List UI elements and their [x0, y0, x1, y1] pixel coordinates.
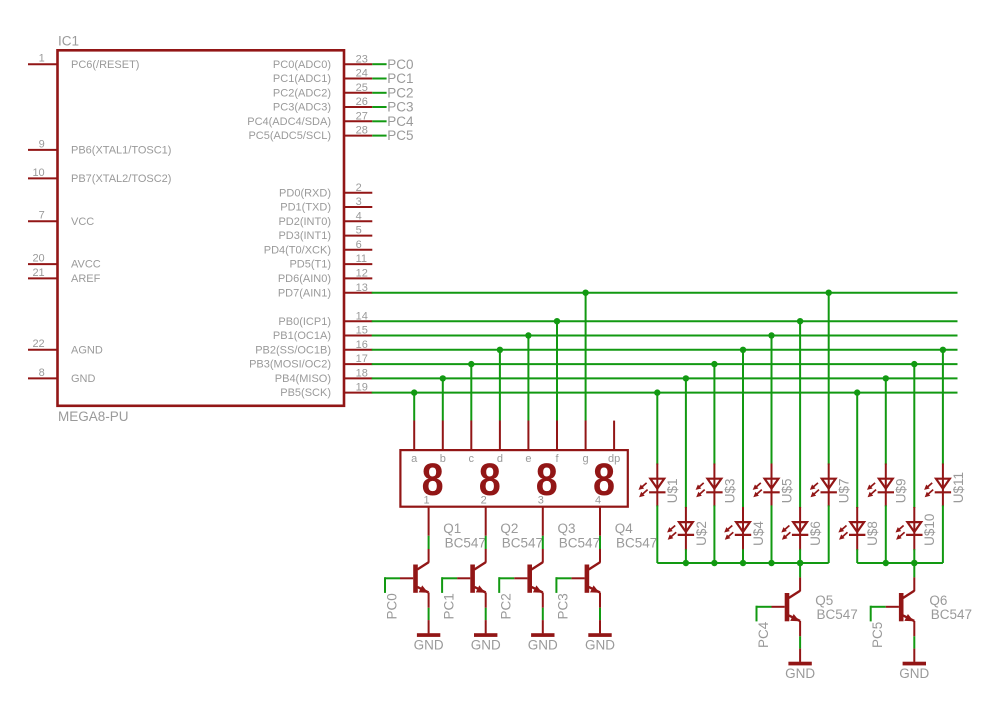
- svg-text:BC547: BC547: [559, 535, 600, 550]
- wire Q5 emitter net: [799, 636, 801, 648]
- IC1 pin 13 PD7(AIN1): [344, 292, 372, 294]
- wire LED U$9 cathode to bus: [885, 505, 887, 563]
- LED U$10: [913, 507, 915, 550]
- wire Q6 collector net from bus: [913, 563, 915, 577]
- svg-text:GND: GND: [471, 638, 501, 653]
- svg-text:PC2(ADC2): PC2(ADC2): [273, 87, 331, 99]
- ground GND under Q1: [417, 633, 440, 637]
- junction: [711, 560, 717, 566]
- wire net PC0 to Q1 base: [385, 577, 400, 579]
- transistor Q5: [785, 593, 790, 621]
- display pin a stub: [413, 421, 415, 451]
- wire display common 4 to Q4 collector (red stub): [599, 507, 601, 536]
- svg-text:PD2(INT0): PD2(INT0): [278, 216, 331, 228]
- svg-text:4: 4: [595, 494, 601, 506]
- svg-text:PC1: PC1: [387, 71, 413, 86]
- svg-text:23: 23: [356, 53, 368, 65]
- svg-text:PC5: PC5: [870, 622, 885, 648]
- svg-text:2: 2: [356, 182, 362, 194]
- wire horizontal net row from pin 13: [372, 292, 958, 294]
- wire LED U$1 cathode to bus: [656, 505, 658, 563]
- IC1 pin 16 PB2(SS/OC1B): [344, 349, 372, 351]
- svg-text:U$5: U$5: [779, 479, 794, 504]
- wire net PC5 to Q6 base: [871, 606, 886, 608]
- wire Q1 collector stub: [428, 549, 430, 563]
- junction: [654, 389, 660, 395]
- wire net PC0: [372, 63, 386, 65]
- svg-text:26: 26: [356, 96, 368, 108]
- svg-text:16: 16: [356, 339, 368, 351]
- svg-text:BC547: BC547: [445, 535, 486, 550]
- IC IC1 (MEGA8-PU microcontroller) body outline: [58, 50, 345, 406]
- ground GND under Q4: [588, 633, 611, 637]
- wire LED U$6 anode drop: [799, 321, 801, 508]
- IC1 pin 9 PB6(XTAL1/TOSC1): [28, 149, 58, 151]
- LED U$6: [799, 507, 801, 550]
- svg-text:15: 15: [356, 325, 368, 337]
- wire Q4 emitter stub: [599, 593, 601, 608]
- IC1 pin 14 PB0(ICP1): [344, 320, 372, 322]
- wire Q4 collector stub: [599, 549, 601, 563]
- wire net PC3: [372, 106, 386, 108]
- junction: [768, 332, 774, 338]
- svg-text:24: 24: [356, 68, 368, 80]
- wire horizontal net row from pin 16: [372, 349, 958, 351]
- junction: [883, 560, 889, 566]
- svg-text:PC4: PC4: [756, 621, 771, 648]
- LED U$1: [656, 464, 658, 507]
- wire net PC5: [372, 135, 386, 137]
- wire Q5 base stub: [772, 606, 785, 608]
- IC1 pin 6 PD4(T0/XCK): [344, 249, 372, 251]
- wire display common 2 to Q2 collector (red stub): [485, 507, 487, 536]
- wire LED U$9 anode drop: [885, 378, 887, 464]
- 7-segment display 4-digit body: [400, 450, 627, 507]
- LED U$3: [713, 464, 715, 507]
- wire net PC1: [372, 78, 386, 80]
- svg-text:g: g: [583, 453, 589, 465]
- svg-text:PB1(OC1A): PB1(OC1A): [273, 330, 331, 342]
- junction: [854, 389, 860, 395]
- junction: [497, 347, 503, 353]
- IC1 pin 23 PC0(ADC0): [344, 63, 372, 65]
- junction: [525, 332, 531, 338]
- wire LED U$6 cathode to bus: [799, 549, 801, 563]
- display pin f stub: [556, 421, 558, 451]
- svg-text:U$2: U$2: [694, 521, 709, 546]
- display pin g stub: [585, 421, 587, 451]
- svg-text:PC0: PC0: [387, 57, 413, 72]
- wire LED U$4 cathode to bus: [742, 549, 744, 563]
- junction: [554, 318, 560, 324]
- svg-text:GND: GND: [528, 638, 558, 653]
- svg-text:3: 3: [356, 196, 362, 208]
- junction: [468, 361, 474, 367]
- svg-text:BC547: BC547: [502, 535, 543, 550]
- svg-text:U$7: U$7: [837, 479, 852, 504]
- svg-text:GND: GND: [785, 666, 815, 681]
- LED U$5: [771, 464, 773, 507]
- svg-text:PC5: PC5: [387, 128, 413, 143]
- svg-text:a: a: [411, 453, 418, 465]
- junction: [911, 361, 917, 367]
- svg-text:10: 10: [32, 167, 44, 179]
- wire Q3 emitter net: [542, 608, 544, 620]
- svg-text:PC2: PC2: [499, 593, 514, 619]
- junction: [826, 290, 832, 296]
- svg-text:AVCC: AVCC: [71, 259, 101, 271]
- svg-text:28: 28: [356, 125, 368, 137]
- IC1 pin 22 AGND: [28, 349, 58, 351]
- svg-text:2: 2: [481, 494, 487, 506]
- wire LED U$5 cathode to bus: [771, 505, 773, 563]
- svg-text:20: 20: [32, 253, 44, 265]
- junction: [740, 560, 746, 566]
- svg-text:PB2(SS/OC1B): PB2(SS/OC1B): [255, 344, 331, 356]
- wire Q5 collector stub: [799, 577, 801, 591]
- ground GND under Q3: [531, 633, 554, 637]
- IC1 pin 4 PD2(INT0): [344, 220, 372, 222]
- svg-text:18: 18: [356, 368, 368, 380]
- svg-text:PC3: PC3: [556, 593, 571, 619]
- junction: [797, 560, 803, 566]
- wire LED group1 cathode bus: [657, 562, 828, 564]
- svg-text:GND: GND: [585, 638, 615, 653]
- svg-text:PC1(ADC1): PC1(ADC1): [273, 73, 331, 85]
- svg-text:MEGA8-PU: MEGA8-PU: [58, 409, 129, 424]
- wire segment b vertical drop: [442, 378, 444, 420]
- svg-text:14: 14: [356, 310, 368, 322]
- IC1 pin 19 PB5(SCK): [344, 392, 372, 394]
- IC1 pin 10 PB7(XTAL2/TOSC2): [28, 177, 58, 179]
- IC1 pin 21 AREF: [28, 277, 58, 279]
- LED U$8: [856, 507, 858, 550]
- wire segment a vertical drop: [413, 393, 415, 421]
- svg-text:U$10: U$10: [922, 514, 937, 546]
- wire horizontal net row from pin 18: [372, 377, 958, 379]
- wire Q1 emitter stub: [428, 593, 430, 608]
- display pin dp stub (unconnected): [613, 421, 615, 451]
- wire net PC2: [372, 92, 386, 94]
- wire LED U$8 cathode to bus: [856, 549, 858, 563]
- transistor Q2: [470, 565, 475, 593]
- svg-text:PC5(ADC5/SCL): PC5(ADC5/SCL): [248, 130, 331, 142]
- junction: [440, 375, 446, 381]
- svg-text:U$3: U$3: [722, 479, 737, 504]
- svg-text:1: 1: [39, 53, 45, 65]
- svg-text:U$4: U$4: [751, 521, 766, 546]
- svg-text:PD0(RXD): PD0(RXD): [279, 187, 331, 199]
- svg-text:PD3(INT1): PD3(INT1): [278, 230, 331, 242]
- wire LED U$5 anode drop: [771, 336, 773, 465]
- wire LED U$10 anode drop: [913, 364, 915, 508]
- IC1 pin 5 PD3(INT1): [344, 235, 372, 237]
- svg-text:U$9: U$9: [894, 479, 909, 504]
- wire Q4 emitter net: [599, 608, 601, 620]
- wire horizontal net row from pin 19: [372, 392, 958, 394]
- junction: [883, 375, 889, 381]
- wire LED U$2 cathode to bus: [685, 549, 687, 563]
- wire LED U$2 anode drop: [685, 378, 687, 508]
- wire LED U$10 cathode to bus: [913, 549, 915, 563]
- IC1 pin 27 PC4(ADC4/SDA): [344, 120, 372, 122]
- svg-text:PC0(ADC0): PC0(ADC0): [273, 59, 331, 71]
- svg-text:Q4: Q4: [615, 521, 634, 536]
- svg-text:27: 27: [356, 110, 368, 122]
- svg-text:7: 7: [39, 210, 45, 222]
- svg-text:GND: GND: [71, 373, 96, 385]
- wire LED U$7 anode drop: [828, 293, 830, 465]
- IC1 pin 11 PD5(T1): [344, 263, 372, 265]
- svg-text:PC3: PC3: [387, 100, 413, 115]
- wire GND stub Q4: [599, 620, 601, 633]
- wire Q6 emitter net: [913, 636, 915, 648]
- junction: [582, 290, 588, 296]
- wire segment e vertical drop: [527, 336, 529, 421]
- junction: [940, 347, 946, 353]
- LED U$7: [828, 464, 830, 507]
- ground GND under Q5: [788, 662, 811, 666]
- IC1 pin 25 PC2(ADC2): [344, 92, 372, 94]
- svg-text:4: 4: [356, 210, 362, 222]
- wire Q2 collector stub: [485, 549, 487, 563]
- ground GND under Q6: [903, 662, 926, 666]
- wire LED U$7 cathode to bus: [828, 505, 830, 563]
- IC1 pin 26 PC3(ADC3): [344, 106, 372, 108]
- wire Q3 collector stub: [542, 549, 544, 563]
- LED U$11: [942, 464, 944, 507]
- IC1 pin 28 PC5(ADC5/SCL): [344, 135, 372, 137]
- svg-text:U$11: U$11: [951, 472, 966, 503]
- svg-text:PD6(AIN0): PD6(AIN0): [278, 273, 331, 285]
- svg-text:22: 22: [32, 338, 44, 350]
- wire GND stub Q1: [428, 620, 430, 633]
- wire net PC2 to Q3 base: [499, 577, 514, 579]
- svg-text:PC3(ADC3): PC3(ADC3): [273, 102, 331, 114]
- ground GND under Q2: [474, 633, 497, 637]
- svg-text:GND: GND: [414, 638, 444, 653]
- wire horizontal net row from pin 17: [372, 363, 958, 365]
- svg-text:PC2: PC2: [387, 85, 413, 100]
- junction: [740, 347, 746, 353]
- svg-text:AGND: AGND: [71, 344, 103, 356]
- display pin d stub: [499, 421, 501, 451]
- svg-text:PB7(XTAL2/TOSC2): PB7(XTAL2/TOSC2): [71, 173, 171, 185]
- svg-text:GND: GND: [899, 666, 929, 681]
- wire display common 1 net: [428, 536, 430, 549]
- svg-text:3: 3: [538, 494, 544, 506]
- svg-text:VCC: VCC: [71, 216, 94, 228]
- junction: [911, 560, 917, 566]
- IC1 pin 7 VCC: [28, 220, 58, 222]
- svg-text:Q3: Q3: [558, 521, 576, 536]
- transistor Q4: [585, 565, 590, 593]
- IC1 pin 12 PD6(AIN0): [344, 277, 372, 279]
- wire Q6 base stub: [886, 606, 899, 608]
- wire segment d vertical drop: [499, 350, 501, 421]
- IC1 pin 2 PD0(RXD): [344, 192, 372, 194]
- LED U$4: [742, 507, 744, 550]
- wire GND stub Q2: [485, 620, 487, 633]
- svg-text:PB0(ICP1): PB0(ICP1): [278, 316, 331, 328]
- wire net PC4 to Q5 base: [757, 606, 772, 608]
- svg-text:Q1: Q1: [443, 521, 461, 536]
- svg-text:9: 9: [39, 138, 45, 150]
- wire Q2 emitter stub: [485, 593, 487, 608]
- wire display common 3 to Q3 collector (red stub): [542, 507, 544, 536]
- wire display common 3 net: [542, 536, 544, 549]
- svg-text:IC1: IC1: [58, 34, 79, 49]
- junction: [683, 375, 689, 381]
- wire LED group2 cathode bus: [857, 562, 943, 564]
- wire segment f vertical drop: [556, 321, 558, 420]
- svg-text:PB3(MOSI/OC2): PB3(MOSI/OC2): [249, 359, 331, 371]
- wire Q3 base stub: [514, 577, 527, 579]
- transistor Q6: [899, 593, 904, 621]
- transistor Q1: [413, 565, 418, 593]
- svg-text:PC6(/RESET): PC6(/RESET): [71, 59, 139, 71]
- wire LED U$11 anode drop: [942, 350, 944, 465]
- svg-text:Q6: Q6: [929, 593, 947, 608]
- junction: [911, 560, 917, 566]
- svg-text:Q2: Q2: [500, 521, 518, 536]
- wire Q4 base stub: [571, 577, 584, 579]
- svg-text:U$8: U$8: [865, 521, 880, 546]
- junction: [683, 560, 689, 566]
- svg-text:19: 19: [356, 382, 368, 394]
- transistor Q3: [527, 565, 532, 593]
- svg-text:PD1(TXD): PD1(TXD): [280, 202, 331, 214]
- wire segment c vertical drop: [470, 364, 472, 420]
- wire GND stub Q3: [542, 620, 544, 633]
- junction: [711, 361, 717, 367]
- wire GND stub Q6: [913, 649, 915, 662]
- wire Q2 emitter net: [485, 608, 487, 620]
- svg-text:13: 13: [356, 282, 368, 294]
- svg-text:BC547: BC547: [931, 607, 972, 622]
- svg-text:PB4(MISO): PB4(MISO): [275, 373, 331, 385]
- junction: [797, 318, 803, 324]
- wire horizontal net row from pin 14: [372, 320, 958, 322]
- svg-text:PC4(ADC4/SDA): PC4(ADC4/SDA): [247, 116, 331, 128]
- wire Q5 emitter stub: [799, 621, 801, 636]
- svg-text:8: 8: [39, 367, 45, 379]
- svg-text:U$1: U$1: [665, 479, 680, 504]
- LED U$9: [885, 464, 887, 507]
- wire display common 2 net: [485, 536, 487, 549]
- wire LED U$1 anode drop: [656, 393, 658, 465]
- svg-text:AREF: AREF: [71, 273, 101, 285]
- wire Q5 collector net from bus: [799, 563, 801, 577]
- svg-text:BC547: BC547: [817, 607, 858, 622]
- svg-text:17: 17: [356, 353, 368, 365]
- svg-text:PB6(XTAL1/TOSC1): PB6(XTAL1/TOSC1): [71, 145, 171, 157]
- IC1 pin 8 GND: [28, 377, 58, 379]
- svg-text:PC1: PC1: [441, 593, 456, 619]
- svg-text:1: 1: [424, 494, 430, 506]
- display pin e stub: [527, 421, 529, 451]
- wire display common 4 net: [599, 536, 601, 549]
- svg-text:11: 11: [356, 253, 367, 265]
- svg-text:21: 21: [32, 267, 44, 279]
- display pin b stub: [442, 421, 444, 451]
- svg-text:PD7(AIN1): PD7(AIN1): [278, 287, 331, 299]
- svg-text:5: 5: [356, 225, 362, 237]
- IC1 pin 24 PC1(ADC1): [344, 78, 372, 80]
- wire Q6 collector stub: [913, 577, 915, 591]
- IC1 pin 18 PB4(MISO): [344, 377, 372, 379]
- wire LED U$8 anode drop: [856, 393, 858, 508]
- svg-text:BC547: BC547: [616, 535, 657, 550]
- wire LED U$3 cathode to bus: [713, 505, 715, 563]
- junction: [768, 560, 774, 566]
- IC1 pin 3 PD1(TXD): [344, 206, 372, 208]
- LED U$2: [685, 507, 687, 550]
- svg-text:c: c: [469, 453, 475, 465]
- wire Q1 base stub: [400, 577, 413, 579]
- wire net PC3 to Q4 base: [556, 577, 571, 579]
- IC1 pin 17 PB3(MOSI/OC2): [344, 363, 372, 365]
- IC1 pin 20 AVCC: [28, 263, 58, 265]
- IC1 pin 15 PB1(OC1A): [344, 335, 372, 337]
- wire LED U$3 anode drop: [713, 364, 715, 464]
- wire GND stub Q5: [799, 649, 801, 662]
- IC1 pin 1 PC6(/RESET): [28, 63, 58, 65]
- wire Q6 emitter stub: [913, 621, 915, 636]
- junction: [411, 389, 417, 395]
- svg-text:PD4(T0/XCK): PD4(T0/XCK): [264, 244, 331, 256]
- svg-text:6: 6: [356, 239, 362, 251]
- wire Q2 base stub: [457, 577, 470, 579]
- wire LED U$4 anode drop: [742, 350, 744, 508]
- svg-text:PD5(T1): PD5(T1): [289, 259, 331, 271]
- display pin c stub: [470, 421, 472, 451]
- svg-text:PC0: PC0: [384, 593, 399, 619]
- svg-text:12: 12: [356, 268, 368, 280]
- wire Q3 emitter stub: [542, 593, 544, 608]
- wire horizontal net row from pin 15: [372, 335, 958, 337]
- svg-text:PC4: PC4: [387, 114, 414, 129]
- wire net PC1 to Q2 base: [442, 577, 457, 579]
- wire display common 1 to Q1 collector (red stub): [428, 507, 430, 536]
- svg-text:PB5(SCK): PB5(SCK): [280, 387, 331, 399]
- svg-text:Q5: Q5: [815, 593, 833, 608]
- wire net PC4: [372, 120, 386, 122]
- wire LED U$11 cathode to bus: [942, 505, 944, 563]
- svg-text:25: 25: [356, 82, 368, 94]
- junction: [797, 560, 803, 566]
- svg-text:e: e: [525, 453, 531, 465]
- wire Q1 emitter net: [428, 608, 430, 620]
- svg-text:U$6: U$6: [808, 521, 823, 546]
- wire segment g vertical drop: [585, 293, 587, 421]
